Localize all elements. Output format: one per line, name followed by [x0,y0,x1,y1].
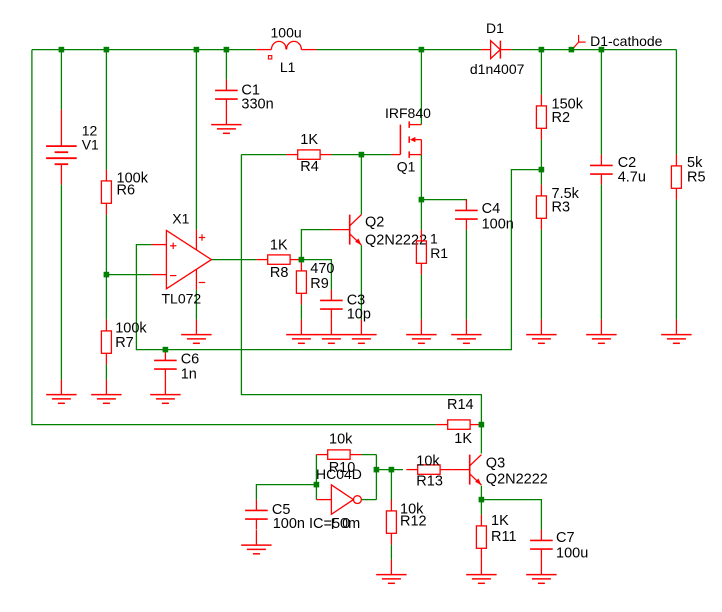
wire C5 wire [256,485,316,500]
capacitor C3 [320,290,343,320]
wire inverting input wire [106,274,151,276]
voltage source V1 [46,110,77,185]
wire V1 top lead wire [60,50,62,110]
wire source node to R1 [420,200,422,230]
ground under C6 [150,380,180,404]
node Q1 source node [419,197,425,203]
svg-text:1K: 1K [491,513,509,529]
wire R4 left wire [241,154,286,156]
svg-text:Q2N2222: Q2N2222 [486,472,548,488]
wire R12 bottom wire [390,545,392,560]
wire R7 bottom wire [105,365,107,380]
svg-text:10k: 10k [329,431,353,447]
resistor R2 [536,95,546,140]
wire Q2 base wire [301,230,331,260]
resistor R8 [256,255,301,264]
ground under R7 [91,380,121,404]
svg-text:1K: 1K [270,238,288,254]
svg-text:330n: 330n [241,96,273,112]
ground under C4 [451,320,481,344]
op-amp X1 [151,230,211,290]
svg-text:R2: R2 [552,110,571,126]
svg-text:R7: R7 [115,335,134,351]
capacitor C5 [245,500,268,530]
node inverter loop node [374,467,380,473]
svg-text:IRF840: IRF840 [385,105,431,121]
svg-text:Q2: Q2 [365,214,384,230]
svg-text:0: 0 [342,516,350,532]
ground under Q2 emitter [346,320,376,344]
resistor R11 [476,515,486,560]
svg-text:R14: R14 [447,397,474,413]
svg-text:X1: X1 [172,210,189,226]
capacitor C2 [590,155,613,185]
wire C3 wire [301,260,331,290]
wire left border loop [32,50,437,425]
svg-text:R8: R8 [270,265,289,281]
node R14/Q3 collector node [479,422,485,428]
resistor R3 [536,185,546,230]
ground under C2 [586,320,616,344]
svg-text:R6: R6 [117,182,136,198]
wire top rail mid (L1 to D1) [316,49,481,51]
svg-text:R4: R4 [300,159,319,175]
wire top rail left [32,49,257,51]
svg-text:Q3: Q3 [486,455,505,471]
wire R12 top wire [390,470,392,501]
svg-text:C7: C7 [556,530,575,546]
node R6-R7 divider tap [104,272,110,278]
wire Q3 emitter wire [480,486,482,515]
node R4/Q2/Q1 gate node [359,152,365,158]
wire V1 bottom wire [60,185,62,380]
wire R13 left wire [376,469,403,471]
wire R6 top wire [105,50,107,170]
wire R4 right wire [331,154,361,156]
wire Q2 emitter wire [360,245,362,319]
node rail-R6 [104,47,110,53]
svg-text:R11: R11 [491,529,517,545]
ground under R1 [406,320,436,344]
wire feedback net to +input [136,170,541,350]
svg-text:100u: 100u [556,545,588,561]
node rail-C1 [224,47,230,53]
resistor R4 [286,150,331,159]
node rail-R2 [539,47,545,53]
ground under R3 [526,320,556,344]
wire Q2 collector wire [360,155,362,215]
node rail-C2 [599,47,605,53]
resistor R12 [386,500,396,545]
ground under op-amp V- [181,320,211,344]
svg-text:d1n4007: d1n4007 [470,61,525,77]
wire R5 top wire [675,50,677,155]
node rail-V1 [59,47,65,53]
wire op-amp output wire [211,259,256,261]
capacitor C1 [215,80,238,110]
node C5/inverter input node [314,482,320,488]
svg-text:100u: 100u [271,25,302,41]
svg-text:100n: 100n [482,217,514,233]
wire R10 right wire [361,454,376,456]
svg-text:R9: R9 [310,276,329,292]
capacitor C4 [455,200,478,230]
capacitor C7 [530,530,553,560]
svg-text:R5: R5 [687,169,706,185]
wire R2-R3 wire [540,140,542,185]
svg-text:1K: 1K [300,132,318,148]
wire R2 top wire [540,50,542,95]
svg-text:TL072: TL072 [162,291,202,307]
node R2-R3 divider tap [539,167,545,173]
svg-text:L1: L1 [280,59,296,75]
wire R5 bottom wire [675,200,677,320]
ground under R12 [376,560,406,584]
inverter U1 HC04D [316,485,361,514]
wire C7 wire [481,500,541,530]
resistor R6 [101,170,111,215]
svg-text:470: 470 [310,261,334,277]
resistor R14 [436,420,481,429]
wire C2 top wire [600,50,602,155]
resistor R10 [316,450,361,459]
wire C1 top wire [225,50,227,80]
node C6 tap [163,347,169,353]
node R8/R9/C3 node [299,257,305,263]
svg-text:HC04D: HC04D [316,466,362,482]
wire R10 left vertical [315,455,317,500]
svg-text:10p: 10p [347,307,371,323]
svg-text:1n: 1n [181,366,197,382]
ground under C7 [526,560,556,584]
svg-text:C6: C6 [181,352,200,368]
ground under R11 [466,560,496,584]
wire op-amp V- wire [195,290,197,320]
node R12 tap node [389,467,395,473]
capacitor C6 [154,350,177,380]
ground under R5 [661,320,691,344]
svg-text:D1-cathode: D1-cathode [590,33,663,49]
ground under C1 [211,110,241,134]
svg-text:C4: C4 [482,201,501,217]
net marker D1-cathode [574,35,586,48]
wire C4 bottom wire [465,230,467,320]
ground under V1 [46,380,76,404]
wire R9 bottom wire [300,305,302,320]
wire Q3 collector wire [480,425,482,454]
svg-text:R13: R13 [416,473,443,489]
ground under R9 [286,320,316,344]
svg-text:R3: R3 [552,199,571,215]
MOSFET Q1 [391,121,421,157]
resistor R13 [406,465,451,474]
wire R3 bottom wire [540,230,542,320]
wire R4 to R14/Q3 net [241,155,481,425]
wire C2 bottom wire [600,185,602,320]
svg-text:D1: D1 [486,20,504,36]
node Q3 emitter node [479,497,485,503]
wire top rail right (D1 cathode) [511,49,676,51]
wire inverter out loop [375,455,377,500]
svg-text:R12: R12 [400,514,427,530]
wire C4 wire [421,200,466,202]
transistor Q2 [331,215,361,246]
node rail-Q1 drain [419,47,425,53]
wire R6-R7 wire [105,215,107,320]
node rail-opamp V+ [194,47,200,53]
wire op-amp V+ wire [195,50,197,230]
overlapping value text of C5 [332,519,333,530]
ground under C3 [316,320,346,344]
ground under C5 [241,530,271,554]
svg-text:Q1: Q1 [397,158,416,174]
resistor R9 [296,260,306,305]
wire Q1 source wire [420,155,422,200]
wire gate wire [361,154,391,156]
resistor R7 [101,320,111,365]
diode D1 [481,41,511,59]
wire inverter output wire [361,499,376,501]
transistor Q3 [451,455,481,486]
inductor L1 [256,41,316,59]
resistor R5 [671,155,681,200]
svg-text:R1: R1 [430,245,448,261]
svg-text:10k: 10k [416,454,440,470]
svg-text:V1: V1 [82,136,99,152]
node rail-marker [569,47,575,53]
wire R1 bottom wire [420,275,422,320]
svg-text:4.7u: 4.7u [618,169,646,185]
svg-text:1K: 1K [454,431,472,447]
wire Q1 drain wire [420,50,422,125]
resistor R1 [416,230,426,275]
